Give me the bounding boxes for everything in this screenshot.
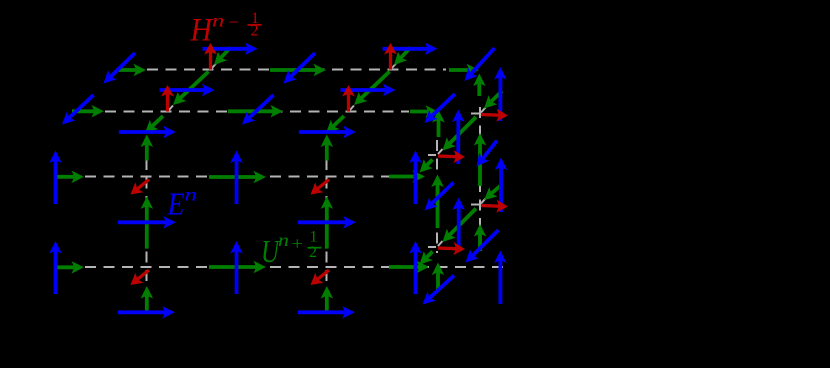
H-field red up arrow at top node (390,70) [384,43,397,70]
U-field green up half arrow at (437,123) [432,110,445,137]
H-field red up arrow at top node (168,112) [161,85,174,112]
U-field green right arrow at (236,177) [209,171,266,183]
U-field green right half arrow at (55,267) [57,261,84,274]
E-field blue right arrow at top node (390,70) [383,43,438,56]
wire front column x=146 [146,159,148,288]
E-field blue right arrow at (327,132) [299,126,356,138]
wire front column x=326 [326,159,328,288]
U-field green diagonal half arrow into top node (390,70) [394,48,411,66]
E-field blue up arrow at front row D midpoint 0 [49,241,62,294]
svg-text:−: − [229,12,240,32]
E-field blue up arrow at (500,94) [494,67,507,121]
E-field blue up arrow at (458,225) [452,198,465,252]
E-field blue up arrow at (458,137) [452,110,465,165]
E-field blue up arrow at front row D midpoint 2 [409,241,422,294]
U-field green up half arrow at (437,277) [432,263,444,291]
wire row C (front upper grid line) [85,176,422,178]
H-field red right arrow at right-face node (480,114) [481,109,508,122]
E-field blue right arrow at (147,312) [118,306,175,319]
E-field blue diagonal arrow at (257,111) [242,95,274,125]
wire row B (mid top grid line) [105,111,409,113]
U-field green up half arrow at (147,148) [141,135,154,161]
H-field red up arrow at top node (348,112) [342,85,355,112]
wire row A (back top grid line) [147,69,446,71]
E-field blue right arrow at top node (168,112) [160,84,215,96]
H-field red right arrow at right-face node (437,155) [438,150,465,163]
wire stub at node (480,205) [471,204,479,206]
U-field green diagonal half arrow into (480,205) [484,186,500,200]
U-field green right half arrow at (437,111) [410,105,438,118]
U-field green diagonal arrow from back node into (348,112) [354,72,390,106]
E-field blue diagonal arrow at (77,111) [62,95,94,125]
U-field green up half arrow at (327,148) [321,135,334,161]
wire z-edge stub at node (480,204) [481,199,486,204]
U-field green right half arrow at (120,70) [119,64,146,76]
wire right column x=480 [479,107,481,255]
wire stub at node (437,247) [428,246,436,248]
U-field green right half arrow at (480,70) [449,64,479,76]
wire z-edge stub at node (437,155) [438,149,443,154]
H-field red diagonal arrow at front node (146,176) [131,180,150,195]
E-field blue up arrow at front row C midpoint 1 [230,151,243,205]
wire right column x=437 [436,140,438,253]
wire z-edge stub at node (348,112) [350,106,355,111]
E-field blue diagonal arrow at (439,196) [425,183,454,211]
E-field blue diagonal arrow at (482,246) [466,230,499,263]
U-field green up half arrow at (327,299) [321,286,334,312]
U-field green diagonal arrow (480,113)->(437,155) [443,117,477,151]
E-field blue up arrow at front row C midpoint 0 [49,151,62,205]
E-field blue up arrow at front row D midpoint 1 [230,241,243,294]
E-field blue right arrow at top node (210,70) [203,43,258,56]
wire z-edge stub at node (168,112) [169,106,174,111]
U-field green diagonal half arrow out of (168,112) [145,116,163,133]
U-field green right half arrow at (77,111) [72,105,104,118]
svg-text:n: n [212,11,225,31]
E-field blue diagonal arrow at (489,153) [477,141,498,167]
U-field green right arrow at (415,267) [389,261,429,273]
E-field blue diagonal arrow at (480,69) [465,48,495,81]
E-field blue diagonal arrow at (438,290) [423,276,455,305]
E-field blue diagonal arrow at (300,69) [284,53,316,84]
wire z-edge stub at node (210,70) [212,64,217,69]
U-field green diagonal half arrow into (480,113) [484,91,502,109]
svg-text:2: 2 [309,244,317,261]
H-field red up arrow at top node (210,70) [204,43,217,70]
H-field red right arrow at right-face node (480,204) [481,200,508,213]
svg-text:n: n [185,185,198,205]
E-field blue right arrow at (327,222) [298,216,356,229]
label E^n [167,185,197,222]
E-field blue right arrow at top node (348,112) [341,84,396,96]
U-field green up half arrow at (147,299) [141,286,154,312]
E-field blue up arrow at front row C midpoint 2 [409,151,422,205]
E-field blue right arrow at (147,132) [119,126,176,138]
U-field green right arrow at (415,176) [389,170,425,183]
H-field red right arrow at right-face node (437,247) [438,242,465,255]
label U^(n+1/2) [261,229,322,270]
E-field blue diagonal arrow at (120,69) [104,53,136,84]
U-field green diagonal half arrow into top node (210,70) [214,48,231,66]
svg-text:+: + [292,234,304,254]
U-field green right arrow at (257,111) [228,105,283,118]
wire stub at node (437,155) [428,154,436,156]
wire row D (front lower grid line) [85,266,508,268]
U-field green right half arrow at (55,176) [57,171,85,184]
E-field blue diagonal arrow at (440,108) [425,94,456,123]
label H^(n-1/2) [190,10,262,49]
wire stub at node (480,113) [471,113,479,115]
H-field red diagonal arrow at front node (146,267) [131,270,150,285]
U-field green up arrow at (147,222) [141,196,154,248]
svg-text:E: E [167,187,185,222]
U-field green diagonal arrow from back node into (168,112) [173,72,209,106]
U-field green right arrow at (236,267) [209,261,266,273]
U-field green diagonal half arrow out of (437,155) [420,159,433,172]
svg-text:1: 1 [310,229,318,246]
U-field green diagonal half arrow out of (348,112) [326,116,344,133]
U-field green right arrow at (300,70) [270,64,326,76]
wire z-edge stub at node (437,247) [438,241,443,246]
U-field green up half arrow at (480,238) [474,224,486,251]
svg-text:H: H [190,13,214,49]
E-field blue up arrow at (500,278) [494,251,507,305]
U-field green diagonal arrow (480,205)->(437,247) [443,209,477,243]
E-field blue up arrow at (500,186) [495,158,507,213]
H-field red diagonal arrow at front node (326,176) [311,180,330,195]
E-field blue right arrow at (147,222) [118,216,176,229]
E-field blue right arrow at (327,312) [298,306,355,319]
U-field green up half arrow at (480,85) [473,74,486,97]
U-field green up arrow at (327,222) [321,196,334,248]
wire z-edge stub at node (480,114) [481,108,486,113]
U-field green diagonal half arrow out of (437,247) [420,251,433,264]
wire z-edge stub at node (390,70) [392,64,397,69]
svg-text:n: n [278,230,289,250]
H-field red diagonal arrow at front node (326,267) [311,270,330,285]
U-field green up arrow at (480,159) [474,133,486,186]
U-field green up arrow at (437,201) [431,175,444,229]
